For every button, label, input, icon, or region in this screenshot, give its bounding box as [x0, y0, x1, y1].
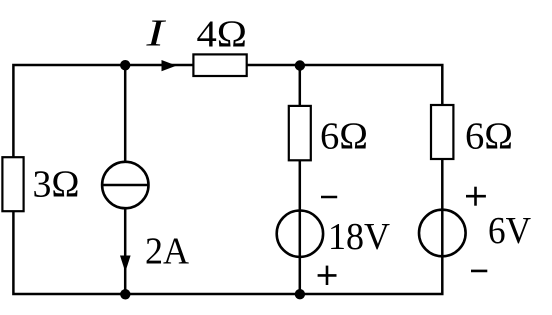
current source 2A arrow head	[120, 256, 131, 273]
svg-text:3Ω: 3Ω	[33, 163, 80, 205]
wire outer loop (top, right, bottom, left)	[13, 65, 442, 294]
node top-middle junction	[295, 60, 305, 70]
svg-text:4Ω: 4Ω	[197, 13, 248, 55]
current source circle (2A)	[102, 162, 148, 208]
resistor 6-ohm box (right)	[431, 105, 453, 159]
plus sign below 18V	[318, 266, 337, 285]
svg-text:2A: 2A	[145, 230, 190, 272]
svg-text:I: I	[145, 13, 167, 55]
node bottom-left junction	[120, 289, 130, 299]
plus sign above 6V	[466, 187, 486, 206]
minus sign above 18V	[321, 196, 337, 199]
voltage source 18V circle	[277, 211, 323, 257]
svg-text:6Ω: 6Ω	[465, 116, 513, 158]
svg-text:18V: 18V	[328, 216, 391, 258]
current arrow I on top wire	[162, 60, 177, 71]
svg-text:6V: 6V	[488, 210, 532, 252]
node top-left junction	[120, 60, 130, 70]
minus sign below 6V	[471, 270, 487, 273]
voltage source 6V circle	[419, 210, 466, 257]
node bottom-middle junction	[295, 289, 305, 299]
wire 6-ohm/18V branch	[299, 65, 302, 294]
resistor 4-ohm box	[193, 54, 246, 76]
wire middle branch (current source branch)	[124, 65, 127, 294]
current source horizontal bar	[102, 184, 148, 187]
resistor 3-ohm box	[2, 157, 23, 211]
svg-text:6Ω: 6Ω	[320, 115, 368, 157]
resistor 6-ohm box (middle)	[289, 106, 311, 160]
